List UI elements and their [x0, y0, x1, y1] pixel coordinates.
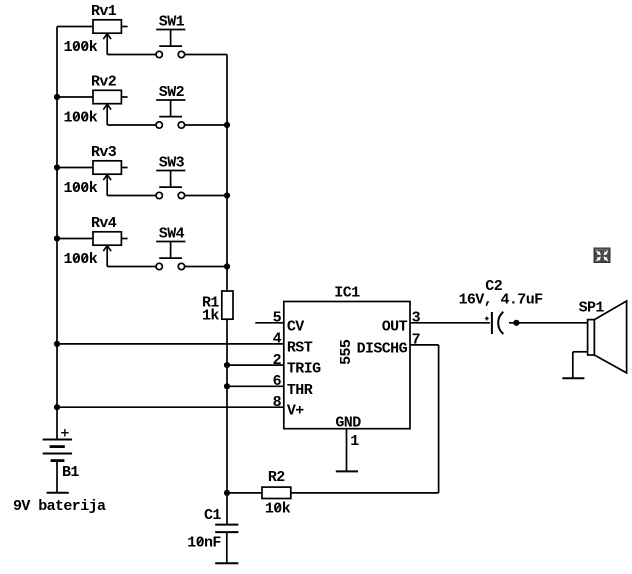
svg-text:CV: CV [287, 318, 304, 335]
wire middle bus upper (switches to R1) [226, 55, 228, 292]
svg-text:6: 6 [273, 373, 282, 390]
wire R2 to middle bus [227, 492, 262, 494]
svg-text:Rv1: Rv1 [91, 3, 117, 20]
label SW1 [159, 14, 185, 31]
ground symbol at SP1 [562, 377, 584, 379]
wire wiper Rv4 to SW4 [107, 266, 156, 268]
svg-text:Rv3: Rv3 [91, 144, 117, 161]
junction THR on middle bus [224, 383, 230, 389]
wire pin 1 GND stem [346, 429, 348, 472]
pin name OUT [382, 318, 408, 335]
switch SW4 [156, 242, 185, 270]
switch SW2 [156, 100, 185, 128]
pin name THR [287, 382, 313, 399]
svg-text:RST: RST [287, 339, 313, 356]
wire SP1 to ground [573, 352, 588, 378]
label Rv2 [91, 74, 117, 91]
junction V+ on left bus [54, 404, 60, 410]
label C2 [485, 278, 502, 295]
wire pin 3 OUT to C2 [410, 322, 490, 324]
svg-text:GND: GND [335, 414, 361, 431]
svg-text:SP1: SP1 [579, 300, 605, 317]
wire pin 2 TRIG to middle bus [227, 364, 284, 366]
switch SW1 [156, 30, 185, 58]
svg-text:SW3: SW3 [159, 155, 185, 172]
pin name TRIG [287, 361, 321, 378]
wire Rv4 left terminal to bus [57, 238, 93, 240]
potentiometer Rv4 [93, 232, 128, 267]
value 100k of Rv2 [64, 110, 98, 127]
battery B1 [43, 429, 73, 493]
potentiometer Rv2 [93, 90, 128, 125]
ui shrink icon [594, 248, 610, 263]
svg-text:SW4: SW4 [159, 226, 185, 243]
wire SW1 to middle bus [185, 54, 227, 56]
svg-text:4: 4 [273, 331, 282, 348]
wire SW3 to middle bus [185, 195, 227, 197]
svg-text:Rv2: Rv2 [91, 74, 117, 91]
potentiometer Rv1 [93, 20, 128, 55]
wire left supply bus [56, 27, 58, 440]
pin number 6 [273, 373, 282, 390]
svg-text:V+: V+ [287, 403, 304, 420]
pin name DISCHG [357, 340, 408, 357]
value 9V baterija of B1 [13, 498, 106, 515]
svg-text:100k: 100k [64, 180, 98, 197]
pin name V+ [287, 403, 304, 420]
svg-text:100k: 100k [64, 110, 98, 127]
value 100k of Rv4 [64, 251, 98, 268]
wire pin 4 RST to left bus [57, 343, 284, 345]
svg-text:R2: R2 [268, 469, 285, 486]
wire pin 7 DISCHG down to R2 [291, 345, 439, 493]
value 100k of Rv1 [64, 39, 98, 56]
junction R2 on middle bus [224, 490, 230, 496]
op-amp/timer IC1 555 body [284, 302, 410, 429]
label SW3 [159, 155, 185, 172]
pin name RST [287, 339, 313, 356]
label IC1 [334, 285, 360, 302]
speaker SP1 [588, 301, 627, 373]
label R1 [202, 295, 219, 312]
pin number 3 [412, 310, 421, 327]
label C1 [204, 507, 221, 524]
svg-text:IC1: IC1 [334, 285, 360, 302]
pin number 4 [273, 331, 282, 348]
resistor R2 [262, 487, 291, 498]
svg-text:7: 7 [412, 332, 420, 349]
label B1 [62, 464, 79, 481]
potentiometer Rv3 [93, 161, 128, 196]
svg-text:10k: 10k [265, 500, 291, 517]
wire wiper Rv3 to SW3 [107, 195, 156, 197]
svg-text:TRIG: TRIG [287, 361, 321, 378]
wire wiper Rv2 to SW2 [107, 124, 156, 126]
wire wiper Rv1 to SW1 [107, 54, 156, 56]
label Rv4 [91, 215, 117, 232]
junction middle bus row 2 [224, 122, 230, 128]
svg-text:1k: 1k [202, 308, 219, 325]
label SW2 [159, 84, 185, 101]
wire middle bus lower (R1 to C1) [226, 319, 228, 524]
value 16V, 4.7uF of C2 [459, 291, 544, 308]
svg-text:555: 555 [338, 339, 355, 365]
label Rv1 [91, 3, 117, 20]
junction node OUT-SP1 [513, 320, 519, 326]
svg-text:SW1: SW1 [159, 14, 185, 31]
svg-text:2: 2 [273, 352, 282, 369]
junction left bus row 3 [54, 164, 60, 170]
pin number 5 [273, 310, 282, 327]
svg-text:16V, 4.7uF: 16V, 4.7uF [459, 291, 544, 308]
pin name CV [287, 318, 304, 335]
value 1k of R1 [202, 308, 219, 325]
label SP1 [579, 300, 605, 317]
svg-text:THR: THR [287, 382, 313, 399]
wire SW4 to middle bus [185, 266, 227, 268]
pin number 7 [412, 332, 420, 349]
pin number 8 [273, 394, 282, 411]
svg-text:100k: 100k [64, 251, 98, 268]
junction left bus row 4 [54, 235, 60, 241]
junction middle bus row 3 [224, 192, 230, 198]
junction left bus row 2 [54, 94, 60, 100]
wire C2 to SP1 [509, 322, 588, 324]
svg-text:Rv4: Rv4 [91, 215, 117, 232]
junction RST on left bus [54, 341, 60, 347]
svg-text:B1: B1 [62, 464, 79, 481]
svg-text:OUT: OUT [382, 318, 408, 335]
resistor R1 [222, 291, 233, 319]
capacitor C2 (polarized) [485, 312, 503, 334]
svg-text:1: 1 [350, 433, 359, 450]
value 10k of R2 [265, 500, 291, 517]
junction TRIG on middle bus [224, 362, 230, 368]
label 555 (rotated) [338, 339, 355, 365]
svg-text:8: 8 [273, 394, 282, 411]
svg-text:DISCHG: DISCHG [357, 340, 408, 357]
svg-text:SW2: SW2 [159, 84, 185, 101]
pin name GND [335, 414, 361, 431]
svg-text:3: 3 [412, 310, 421, 327]
capacitor C1 [215, 525, 238, 564]
ground symbol at C1 [215, 562, 238, 564]
wire pin 5 CV stub [255, 322, 283, 324]
switch SW3 [156, 171, 185, 199]
pin number 2 [273, 352, 282, 369]
wire Rv1 left terminal to bus [57, 26, 93, 28]
label SW4 [159, 226, 185, 243]
svg-text:5: 5 [273, 310, 282, 327]
ground symbol at IC1 pin 1 [336, 470, 358, 472]
wire pin 6 THR to middle bus [227, 385, 284, 387]
label Rv3 [91, 144, 117, 161]
value 10nF of C1 [187, 534, 221, 551]
wire SW2 to middle bus [185, 124, 227, 126]
label R2 [268, 469, 285, 486]
svg-text:10nF: 10nF [187, 534, 221, 551]
wire pin 8 V+ to left bus [57, 406, 284, 408]
svg-text:9V baterija: 9V baterija [13, 498, 106, 515]
wire Rv3 left terminal to bus [57, 167, 93, 169]
junction middle bus row 4 [224, 263, 230, 269]
wire Rv2 left terminal to bus [57, 96, 93, 98]
pin number 1 [350, 433, 359, 450]
svg-text:C1: C1 [204, 507, 221, 524]
ground symbol at B1 [47, 492, 69, 494]
svg-text:100k: 100k [64, 39, 98, 56]
value 100k of Rv3 [64, 180, 98, 197]
